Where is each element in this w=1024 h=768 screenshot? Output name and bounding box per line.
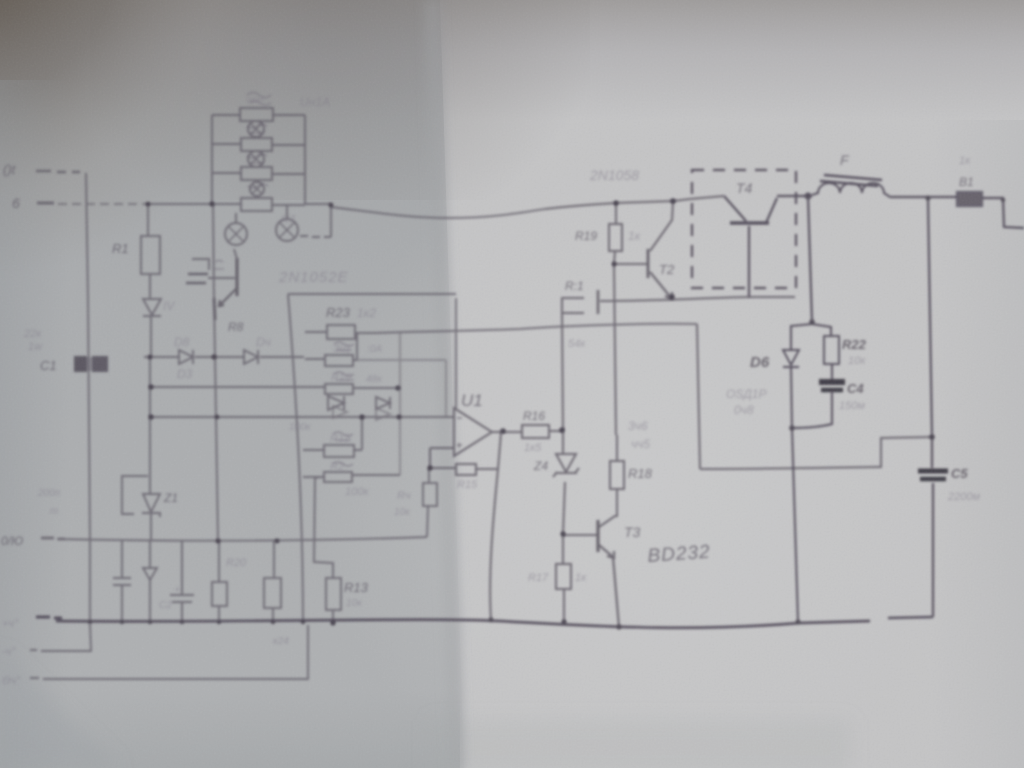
resistor R24 column	[273, 541, 274, 622]
resistor R17	[556, 564, 571, 589]
fold dark band on left of crease	[424, 0, 464, 768]
wire x=151 vertical	[150, 357, 151, 541]
feedback loop wire	[430, 433, 501, 469]
transistor T2 bar	[647, 249, 650, 278]
wire x=614 long vertical	[614, 264, 616, 435]
diode D6	[783, 350, 799, 367]
wire corner down x=697	[697, 324, 700, 469]
capacitor C1 body	[74, 356, 108, 372]
wire y=387 from x151 node	[151, 386, 325, 388]
bright right-of-fold zone	[438, 0, 1024, 768]
wire x=491 down to bus2	[490, 469, 498, 620]
bottom darkening	[0, 690, 460, 768]
resistor ladder box 3	[241, 167, 272, 180]
diode D2	[179, 350, 193, 364]
LED circle 3	[250, 182, 264, 196]
wire: top bus y=204 middle	[145, 204, 331, 205]
diode D5b	[376, 397, 390, 409]
T1 inner marks	[214, 261, 224, 270]
resistor R19	[609, 224, 622, 251]
inductor F winding	[812, 183, 890, 197]
resistor R22	[824, 336, 839, 364]
wire: ladder right rail	[304, 115, 306, 204]
INK	[214, 93, 354, 467]
wire x=562 vertical	[562, 313, 565, 622]
wire F to B1	[890, 196, 957, 198]
LED circle 2	[248, 151, 264, 167]
resistor R20 column	[218, 541, 220, 622]
ladder scribble 4	[248, 184, 268, 188]
resistor R1	[141, 236, 160, 274]
wire y=360 and verticals x400 x446	[357, 333, 446, 475]
wire thick junction on x214	[214, 298, 215, 320]
diode D4	[244, 350, 258, 364]
capacitor C3	[170, 541, 194, 622]
LED R7	[276, 205, 298, 241]
transistor T2 collector	[650, 202, 673, 251]
right edge slight darkening	[930, 120, 1024, 768]
LED circle 1	[248, 121, 264, 137]
capacitor C5 plates	[918, 469, 948, 474]
resistor R9 box	[305, 333, 357, 366]
top dark band	[0, 0, 1024, 120]
stack scribble R10	[334, 372, 354, 380]
op-amp input marks	[457, 418, 462, 448]
node dot T4 line	[806, 194, 811, 199]
wire y=417 to op-amp	[151, 416, 454, 418]
wire B1 to right edge with step	[982, 198, 1024, 228]
transistor T1 collector	[234, 249, 237, 259]
wire: sagging bus from x331 to T4	[331, 207, 545, 218]
resistor R24	[264, 578, 281, 608]
ladder rung 3	[212, 173, 305, 174]
bottom bus 0/B y=540	[41, 538, 65, 539]
zener D1	[143, 299, 161, 316]
ladder scribble 2	[247, 124, 267, 133]
big box left rail down to bus	[288, 294, 303, 622]
ladder scribble 1	[247, 93, 271, 106]
diode D5c	[333, 406, 347, 418]
op-amp U1	[454, 408, 492, 456]
terminal 1 stub dashes	[36, 171, 80, 172]
zener Z4	[553, 454, 579, 477]
resistor R18	[610, 435, 624, 489]
wire T4 to F	[777, 195, 812, 197]
relay bar	[597, 290, 600, 314]
transistor T4 emitter	[748, 226, 750, 297]
wire C4 down and left to D6 node	[792, 391, 832, 428]
zener Z1	[142, 494, 160, 517]
transistor T1 base plates	[186, 274, 208, 283]
wire y=332 long to right corner	[373, 324, 697, 333]
capacitor C2	[113, 541, 131, 622]
transistor T3 bar	[596, 520, 599, 552]
ladder rung 1	[212, 114, 305, 116]
resistor R12 box	[303, 417, 362, 457]
wire D1 down	[150, 317, 152, 357]
resistor R23 leads	[305, 332, 373, 333]
op-amp output wire	[492, 431, 522, 433]
Z1 bracket	[122, 476, 148, 514]
R22 branch wire	[812, 324, 832, 381]
transistor T2 emitter	[650, 272, 672, 299]
bus4 long	[30, 625, 308, 679]
fold crease line	[439, 0, 463, 768]
resistor R19 leads	[614, 203, 616, 264]
transistor T4 base bar	[730, 221, 769, 224]
resistor R10 box	[325, 384, 398, 394]
fuse B1	[957, 192, 982, 206]
bottom-left corner	[0, 650, 120, 768]
resistor R15	[456, 464, 476, 475]
bottom-center slight darkening	[430, 720, 850, 768]
transistor T1 base lead	[208, 277, 235, 279]
wire x=810 from line down to D6 node	[808, 195, 812, 322]
transistor T1 emitter	[219, 289, 236, 306]
resistor R11 box	[303, 472, 400, 482]
relay bracket RE1	[562, 298, 584, 313]
diode column x=150	[143, 541, 157, 622]
D6 branch wires	[791, 324, 812, 428]
wire y=463 lower return	[700, 437, 933, 469]
wire R1 to D1	[149, 274, 151, 299]
resistor R13 chain	[314, 477, 333, 624]
top-center dark blob	[90, 0, 590, 200]
wire: diode row y=357	[144, 356, 304, 358]
transistor T4 collector diagonal	[766, 198, 777, 223]
transistor T4 input diagonal	[724, 196, 746, 221]
ladder scribble 3	[247, 154, 267, 163]
bottom bus2 main	[56, 620, 870, 628]
resistor R1 lead	[147, 204, 149, 236]
R14 drop from bus0	[427, 506, 428, 537]
T3 base wire	[563, 534, 598, 536]
capacitor C4 plates	[819, 379, 845, 385]
diode D5a	[328, 396, 344, 410]
big feedback box top edge	[288, 293, 456, 295]
wire y=300 emitter row	[600, 297, 795, 301]
resistor R20	[212, 582, 227, 606]
bus3 short	[30, 624, 91, 651]
wire: left long vertical from terminal 1 down to bottom bus	[86, 173, 90, 622]
transistor T3 emitter	[599, 545, 619, 627]
wire: corner down from top bus	[330, 205, 332, 237]
resistor R13	[326, 578, 341, 610]
LED D below bus	[225, 213, 247, 245]
stack scribble R9	[334, 342, 354, 350]
resistor ladder box 1	[240, 108, 273, 121]
resistor ladder box 2	[241, 138, 272, 151]
left edge strip	[0, 80, 70, 768]
left-of-fold tone	[0, 0, 464, 768]
resistor R16	[522, 425, 562, 438]
ladder rung 2	[212, 144, 305, 145]
wire: top bus y=204 left part	[58, 203, 145, 205]
transistor T1 bracket	[192, 259, 209, 270]
bottom bus2 stub	[36, 617, 62, 618]
transistor T1 bar	[235, 258, 238, 296]
terminal 2 (bus 6) stub	[37, 202, 54, 205]
wire: vertical x=213 rail (ladder left / T1 emitter column)	[212, 115, 218, 541]
bright mid ellipse	[300, 100, 1024, 768]
wire x=793 down to bottom bus	[792, 428, 798, 622]
resistor R14	[423, 468, 437, 506]
diode D5d	[376, 408, 390, 420]
bottom bus2 right piece	[888, 617, 933, 618]
stack scribble R12	[333, 432, 353, 440]
T2 base wire	[614, 263, 648, 265]
big box right edge down to op-amp	[455, 298, 457, 408]
top-left dark corner	[0, 0, 460, 360]
inductor F core bars	[820, 175, 882, 186]
resistor ladder box 4	[241, 198, 272, 211]
dashed box around T4	[692, 170, 796, 288]
stack scribble R11	[333, 462, 353, 466]
resistor R23	[327, 325, 355, 339]
dashes from R7 to corner	[300, 236, 331, 237]
transistor T3 collector	[599, 489, 617, 527]
wire x=930 long right vertical	[928, 198, 933, 617]
